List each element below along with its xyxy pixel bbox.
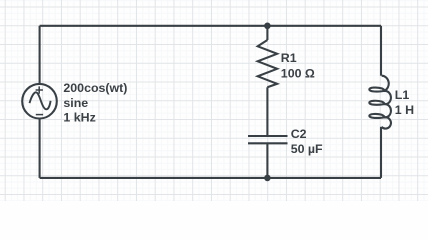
svg-text:R1: R1 xyxy=(281,51,297,65)
wire left lower xyxy=(39,119,41,178)
capacitor C2 top plate xyxy=(248,135,288,137)
svg-text:L1: L1 xyxy=(395,88,410,102)
wire right upper xyxy=(380,26,382,76)
V1 minus sign xyxy=(36,114,43,116)
svg-text:1 H: 1 H xyxy=(395,103,414,117)
wire middle lower xyxy=(266,143,268,178)
node junction dot top xyxy=(264,23,271,30)
V1 sine wave xyxy=(30,92,51,109)
wire right lower xyxy=(380,127,382,178)
wire bottom bus xyxy=(40,177,381,179)
svg-text:sine: sine xyxy=(63,96,88,110)
svg-text:C2: C2 xyxy=(291,127,307,141)
capacitor C2 bottom plate xyxy=(248,142,288,144)
wire middle upper xyxy=(266,26,268,40)
wire top bus xyxy=(40,25,381,27)
svg-text:100 Ω: 100 Ω xyxy=(281,66,315,80)
node junction dot bottom xyxy=(264,175,271,182)
svg-text:50 µF: 50 µF xyxy=(291,142,323,156)
V1 plus sign xyxy=(36,86,43,93)
inductor L1 xyxy=(369,76,391,129)
resistor R1 xyxy=(258,40,277,87)
voltage source V1 xyxy=(22,84,57,119)
svg-text:1 kHz: 1 kHz xyxy=(63,110,95,124)
svg-text:200cos(wt): 200cos(wt) xyxy=(63,81,127,95)
wire middle R1 to C2 xyxy=(266,87,268,136)
wire left upper xyxy=(39,26,41,84)
